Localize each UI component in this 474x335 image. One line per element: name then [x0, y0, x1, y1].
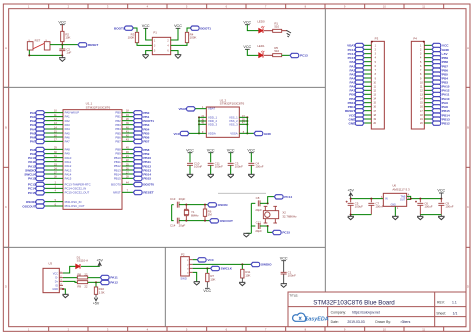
wire +5V to IN	[349, 193, 351, 199]
wire C13 to OSCIN	[179, 203, 208, 206]
ground C10	[187, 173, 194, 176]
wire C4 to ground	[250, 165, 253, 174]
header P4 pin 1 net VCC	[424, 44, 432, 47]
svg-text:Company:: Company:	[331, 311, 347, 315]
ground 32k	[250, 226, 253, 233]
header P4 pin 10 net PB3	[424, 81, 432, 84]
U1.1 pin 3 PC14-OSC32_IN	[45, 187, 63, 190]
svg-text:PB13: PB13	[114, 168, 121, 172]
net flag PB9	[133, 152, 142, 156]
svg-text:OSCOUT: OSCOUT	[220, 219, 233, 223]
svg-text:PA5: PA5	[30, 131, 36, 135]
svg-text:GND: GND	[264, 132, 272, 136]
svg-text:VDD_3: VDD_3	[208, 122, 217, 126]
svg-text:1uF: 1uF	[66, 50, 71, 54]
svg-text:100nF: 100nF	[215, 165, 223, 169]
net flag PB1	[133, 115, 142, 119]
svg-text:VCC: VCC	[227, 148, 235, 152]
net flag GND U1.2	[254, 131, 263, 135]
header P4 pin 6 net PB7	[424, 64, 432, 67]
svg-text:PB13: PB13	[143, 168, 151, 172]
header P4 pin 18 net PB14	[424, 114, 432, 117]
net flag OSCIN	[36, 200, 45, 204]
header P3 pin 17 net RESET	[364, 109, 371, 112]
net flag PA12 usb	[100, 280, 109, 284]
net flag BOOT0	[133, 182, 142, 186]
svg-text:PB10: PB10	[114, 156, 121, 160]
svg-text:VCC: VCC	[173, 132, 180, 136]
U1.1 pin 20 PB2	[122, 119, 133, 122]
svg-text:100nF: 100nF	[255, 165, 263, 169]
svg-text:GND: GND	[442, 48, 450, 52]
U1.1 pin 21 PB10	[122, 156, 133, 159]
net flag PA9	[36, 152, 45, 156]
wire C10 to ground	[189, 165, 192, 174]
svg-text:OSCOUT: OSCOUT	[22, 204, 35, 208]
svg-text:VCC: VCC	[203, 289, 211, 293]
U1.2 VDD pins wires	[199, 116, 206, 119]
svg-text:VBAT: VBAT	[208, 107, 215, 111]
ground P2	[194, 280, 200, 283]
net flag PB5	[133, 131, 142, 135]
net flag PB8	[133, 147, 142, 151]
net flag PA2	[36, 119, 45, 123]
svg-text:20pF: 20pF	[179, 223, 186, 227]
wire switch to RESET node	[50, 43, 78, 46]
svg-text:PA4: PA4	[350, 76, 356, 80]
svg-text:PB14: PB14	[114, 172, 121, 176]
ground C4	[248, 173, 255, 176]
svg-text:10K: 10K	[245, 273, 250, 277]
ground reset	[61, 55, 63, 57]
svg-text:RESET: RESET	[345, 109, 355, 113]
capacitor C5	[349, 199, 352, 203]
wire C12 to PC15 node	[260, 225, 268, 228]
svg-text:PA3: PA3	[65, 123, 71, 127]
net flag PC13 led	[290, 53, 299, 57]
svg-text:PA9: PA9	[30, 152, 36, 156]
U1.1 pin 34 PA13	[45, 169, 63, 172]
resistor R10	[95, 282, 98, 287]
svg-text:OSCIN: OSCIN	[218, 203, 229, 207]
resistor R6	[204, 205, 207, 209]
svg-text:VCC: VCC	[349, 113, 356, 117]
U1.1 pin 14 PA4	[45, 128, 63, 131]
net flag RESET	[133, 190, 142, 194]
svg-text:PB10: PB10	[348, 101, 356, 105]
header P3 pin 16 net PB11	[364, 105, 371, 108]
svg-text:PB8: PB8	[442, 60, 448, 64]
wire output bottom rail	[420, 213, 441, 216]
svg-text:PA0: PA0	[350, 60, 356, 64]
U1.1 pin 42 PB6	[122, 136, 133, 139]
svg-text:PB10: PB10	[143, 156, 151, 160]
svg-text:VCC: VCC	[207, 148, 215, 152]
ground C1	[281, 282, 287, 285]
wire VSSA pin 8 to GND	[239, 132, 254, 135]
svg-text:PC14-OSC32_IN: PC14-OSC32_IN	[65, 187, 86, 191]
svg-text:PD0-OSC_IN: PD0-OSC_IN	[65, 200, 82, 204]
wire switch bottom	[29, 50, 62, 55]
U1.1 pin 28 PB15	[122, 177, 133, 180]
svg-text:BOOT1: BOOT1	[200, 26, 211, 30]
capacitor C4	[248, 162, 254, 165]
svg-text:VCC: VCC	[186, 148, 194, 152]
svg-text:C14: C14	[170, 223, 176, 227]
net flag PA5	[36, 131, 45, 135]
svg-text:100K: 100K	[128, 36, 135, 40]
svg-text:10K: 10K	[65, 36, 70, 40]
svg-text:PB4: PB4	[143, 127, 149, 131]
wire D1 to +5V	[81, 265, 100, 268]
svg-text:100uF: 100uF	[424, 205, 432, 209]
ground C6	[417, 215, 423, 218]
svg-text:VSSA: VSSA	[230, 132, 238, 136]
svg-text:PA9: PA9	[65, 152, 71, 156]
svg-text:PB11: PB11	[348, 105, 356, 109]
svg-text:100uF: 100uF	[355, 205, 363, 209]
svg-text:PA2: PA2	[65, 119, 71, 123]
svg-text:32.768KHz: 32.768KHz	[282, 214, 297, 218]
svg-text:VCC: VCC	[174, 24, 182, 28]
partition line horizontal lower	[3, 246, 325, 249]
net flag PB10	[133, 156, 142, 160]
svg-text:PD1-OSC_OUT: PD1-OSC_OUT	[65, 204, 85, 208]
U1.1 pin 6 PD1-OSC_OUT	[45, 205, 63, 208]
U1.1 pin 41 PB5	[122, 132, 133, 135]
wire R9 to PA12	[88, 281, 101, 284]
wire U3 GND to ground	[63, 289, 65, 294]
svg-text:PB6: PB6	[115, 135, 121, 139]
resistor R9	[77, 281, 87, 284]
header P3 pin 10 net PA5	[364, 81, 371, 84]
svg-text:RST: RST	[35, 38, 41, 42]
svg-text:22: 22	[84, 272, 88, 276]
wire U3 VCC to D1	[63, 266, 76, 273]
wire C11 to ground	[209, 165, 212, 174]
header P2 SWD	[181, 257, 190, 276]
wire regulator GND pin	[394, 207, 397, 217]
svg-text:PB3: PB3	[115, 123, 121, 127]
title block	[288, 292, 466, 327]
svg-text:PC15: PC15	[348, 56, 356, 60]
net flag OSCIN	[208, 203, 217, 207]
svg-text:GND: GND	[52, 288, 58, 291]
wire VCC to C10	[189, 153, 192, 163]
U1.1 pin 27 PB14	[122, 173, 133, 176]
LED LED1	[259, 53, 263, 58]
svg-text:GND: GND	[348, 121, 356, 125]
net flag PC14	[274, 195, 283, 199]
svg-text:PB3: PB3	[442, 81, 448, 85]
svg-text:20pF: 20pF	[255, 229, 262, 233]
svg-text:PB9: PB9	[143, 152, 149, 156]
svg-text:R8: R8	[77, 272, 81, 276]
svg-text:P2: P2	[181, 253, 185, 257]
net flag SWDIO	[251, 262, 260, 266]
svg-text:PB1: PB1	[115, 115, 121, 119]
svg-text:PA0-WKUP: PA0-WKUP	[65, 111, 80, 115]
svg-text:510: 510	[274, 49, 279, 53]
U1.1 pin 32 PA11	[45, 160, 63, 163]
svg-text:8MHz: 8MHz	[191, 213, 199, 217]
svg-text:PB1: PB1	[349, 97, 355, 101]
svg-text:PC15-OSC32_OUT: PC15-OSC32_OUT	[65, 191, 90, 195]
svg-text:PB7: PB7	[115, 139, 121, 143]
wire VCC to P1 pin1	[146, 28, 153, 40]
svg-text:PA15: PA15	[442, 85, 450, 89]
wire node to PC14	[268, 197, 275, 204]
wire VCC to C3	[229, 153, 232, 163]
capacitor C6	[419, 199, 422, 203]
svg-text:PA2: PA2	[30, 119, 36, 123]
svg-text:PB12: PB12	[442, 121, 450, 125]
svg-text:22: 22	[84, 285, 88, 289]
resistor R5	[273, 54, 282, 57]
capacitor C12	[257, 223, 260, 229]
header P3 pin 8 net PA3	[364, 73, 371, 76]
wire R11 to ground	[241, 278, 243, 282]
header P3 pin 13 net PB0	[364, 93, 371, 96]
U1.1 pin 40 PB4	[122, 128, 133, 131]
capacitor C9	[440, 199, 443, 203]
ground regulator	[392, 215, 399, 218]
svg-text:RESET: RESET	[88, 43, 98, 47]
wire regulator output	[407, 196, 411, 199]
svg-text:PB5: PB5	[143, 131, 149, 135]
svg-text:PB11: PB11	[143, 160, 151, 164]
net flag OSCOUT	[210, 219, 219, 223]
svg-text:r3bers: r3bers	[401, 320, 411, 324]
svg-text:510: 510	[274, 24, 279, 28]
svg-text:PA1: PA1	[350, 64, 356, 68]
U1.1 pin 11 PA1	[45, 115, 63, 118]
wire C14 to OSCOUT	[179, 219, 210, 222]
svg-text:VBAT: VBAT	[347, 44, 355, 48]
U1.1 pin 31 PA10	[45, 156, 63, 159]
svg-text:PA10: PA10	[28, 156, 36, 160]
svg-text:PA7: PA7	[65, 139, 71, 143]
net flag PA8	[36, 147, 45, 151]
resistor R4	[185, 32, 188, 42]
net flag VBAT	[187, 107, 196, 111]
wire R5 to PC13	[282, 54, 290, 57]
svg-text:PB1: PB1	[143, 115, 149, 119]
svg-text:PB12: PB12	[143, 164, 151, 168]
header P3 pin 12 net PA7	[364, 89, 371, 92]
net flag PA1	[36, 115, 45, 119]
header P3 pin 20 net GND	[364, 122, 371, 125]
svg-text:PA14: PA14	[65, 172, 72, 176]
wire LED0 to R1	[264, 29, 273, 32]
svg-text:VCC: VCC	[53, 272, 58, 275]
svg-text:PB6: PB6	[442, 68, 448, 72]
net flag RESET	[78, 43, 87, 47]
U1.1 pin 43 PB7	[122, 140, 133, 143]
net flag PB6	[133, 135, 142, 139]
svg-text:PA11: PA11	[110, 276, 118, 280]
svg-text:Drawn By:: Drawn By:	[375, 320, 391, 324]
svg-text:PC14: PC14	[28, 187, 36, 191]
header P3 pin 7 net PA2	[364, 69, 371, 72]
net flag PB4	[133, 127, 142, 131]
svg-text:PA15: PA15	[65, 176, 72, 180]
U1.1 pin 18 PB0	[122, 111, 133, 114]
header P4 pin 16 net PA8	[424, 105, 432, 108]
svg-text:RESET: RESET	[143, 191, 153, 195]
header P4 pin 3 net +5V	[424, 52, 432, 55]
U1.1 pin 15 PA5	[45, 132, 63, 135]
svg-text:OSCIN: OSCIN	[26, 200, 37, 204]
svg-text:PA6: PA6	[350, 85, 356, 89]
net flag PB3	[133, 123, 142, 127]
header P1	[152, 37, 170, 54]
net flag PA11 usb	[100, 275, 109, 279]
U1.1 pin 33 PA12	[45, 165, 63, 168]
U1.1 pin 22 PB11	[122, 160, 133, 163]
svg-text:LED1: LED1	[257, 44, 265, 48]
svg-text:1/1: 1/1	[453, 312, 458, 316]
svg-text:D-: D-	[55, 277, 58, 280]
svg-text:PA3: PA3	[350, 72, 356, 76]
net flag PA7	[36, 139, 45, 143]
capacitor C10	[187, 162, 193, 165]
U1.1 pin 37 PA14	[45, 173, 63, 176]
header P4 pin 13 net PA11	[424, 93, 432, 96]
svg-text:PA1: PA1	[30, 115, 36, 119]
wire R4 to P1 pin4	[171, 43, 187, 46]
svg-text:PB9: PB9	[115, 152, 121, 156]
svg-text:PA6: PA6	[30, 135, 36, 139]
crystal X2 32.768KHz	[263, 211, 278, 219]
wire 32k left rail	[251, 202, 255, 205]
header P4 pin 7 net PB6	[424, 69, 432, 72]
wire P2 pin1 to VCC	[193, 258, 198, 261]
ground C11	[208, 173, 214, 176]
svg-text:PB6: PB6	[143, 135, 149, 139]
wire P2 pin3 to SWCLK	[193, 267, 211, 270]
svg-text:PB11: PB11	[114, 160, 121, 164]
net flag PA10	[36, 156, 45, 160]
svg-text:1.5K: 1.5K	[99, 290, 105, 294]
net flag PC14	[36, 186, 45, 190]
svg-text:PA8: PA8	[30, 148, 36, 152]
net flag PA4	[36, 127, 45, 131]
svg-text:EasyEDA: EasyEDA	[305, 317, 329, 323]
svg-text:VCC: VCC	[243, 45, 251, 49]
svg-text:PC13: PC13	[348, 48, 356, 52]
svg-text:PA9: PA9	[442, 101, 448, 105]
wire node to PC15	[268, 226, 273, 232]
svg-text:PB0: PB0	[143, 111, 149, 115]
wire input bottom rail	[351, 213, 372, 216]
U1.1 pin 12 PA2	[45, 119, 63, 122]
svg-text:PB5: PB5	[115, 131, 121, 135]
svg-text:PA11: PA11	[65, 160, 72, 164]
svg-text:SWDIO: SWDIO	[25, 168, 36, 172]
wire VCC to P1 pin2	[171, 28, 178, 40]
svg-text:Date:: Date:	[331, 320, 339, 324]
net flag SWDIO	[36, 168, 45, 172]
EasyEDA logo	[293, 313, 329, 323]
svg-text:VSS_3: VSS_3	[229, 122, 238, 126]
header P4 pin 15 net PA9	[424, 101, 432, 104]
svg-text:PB7: PB7	[442, 64, 448, 68]
wire U3 D+ to R9	[63, 281, 77, 282]
capacitor C11	[208, 162, 214, 165]
svg-text:PB4: PB4	[442, 76, 448, 80]
header P3 pin 11 net PA6	[364, 85, 371, 88]
svg-text:PB2: PB2	[115, 119, 121, 123]
svg-text:PC13: PC13	[300, 54, 308, 58]
net flag PA12	[36, 164, 45, 168]
svg-text:R9: R9	[77, 285, 81, 289]
svg-text:TITLE:: TITLE:	[289, 293, 298, 297]
ground regulator input	[348, 215, 354, 218]
U1.1 pin 17 PA7	[45, 140, 63, 143]
ground C3	[228, 173, 234, 176]
svg-text:ID: ID	[55, 284, 58, 287]
net flag OSCOUT	[36, 204, 45, 208]
svg-text:PB13: PB13	[442, 117, 450, 121]
svg-text:BOOT0: BOOT0	[111, 182, 121, 186]
svg-text:PA5: PA5	[350, 81, 356, 85]
wire BOOT0 to R3	[133, 28, 137, 32]
svg-text:PC13-TAMPER-RTC: PC13-TAMPER-RTC	[65, 182, 91, 186]
svg-text:PA8: PA8	[442, 105, 448, 109]
op-amp U1.2 STM32F103C8T6 power symbol	[206, 107, 239, 137]
svg-text:PA12: PA12	[65, 164, 72, 168]
svg-text:VCC: VCC	[142, 24, 150, 28]
svg-text:PA12: PA12	[442, 89, 450, 93]
svg-text:20pF: 20pF	[255, 208, 262, 212]
header P4 pin 5 net PB8	[424, 60, 432, 63]
resistor R8	[77, 276, 87, 279]
svg-text:SS110-A: SS110-A	[77, 259, 88, 263]
U1.1 pin 44 BOOT0	[122, 183, 133, 186]
svg-text:PA4: PA4	[65, 127, 71, 131]
svg-text:PA10: PA10	[65, 156, 72, 160]
U1.1 pin 26 PB13	[122, 169, 133, 172]
svg-text:PA13: PA13	[65, 168, 72, 172]
svg-text:PA4: PA4	[30, 127, 36, 131]
svg-text:+5V: +5V	[97, 259, 104, 263]
svg-text:100nF: 100nF	[375, 205, 383, 209]
svg-text:100K: 100K	[190, 36, 197, 40]
wire C1 to ground	[282, 274, 285, 283]
U1.1 pin 29 PA8	[45, 148, 63, 151]
ground U3	[62, 293, 68, 296]
header P4 pin 9 net PB4	[424, 77, 432, 80]
LED LED0	[259, 28, 263, 33]
svg-text:PB5: PB5	[442, 72, 448, 76]
header P3 pin 2 net PC13	[364, 48, 371, 51]
wire VCC to R2	[61, 25, 64, 32]
header P4 pin 20 net PB12	[424, 122, 432, 125]
svg-text:BOOT0: BOOT0	[143, 183, 154, 187]
switch SW1 RST	[27, 42, 33, 50]
svg-text:STM32F103C8T6: STM32F103C8T6	[86, 105, 111, 109]
header P3 pin 14 net PB1	[364, 97, 371, 100]
ground boot right	[175, 53, 182, 56]
svg-text:SWDIO: SWDIO	[261, 263, 272, 267]
svg-text:VBAT: VBAT	[178, 107, 186, 111]
svg-text:PA15: PA15	[28, 177, 36, 181]
svg-text:PB0: PB0	[115, 111, 121, 115]
U1.1 pin 30 PA9	[45, 152, 63, 155]
header P4 pin 14 net PA10	[424, 97, 432, 100]
svg-text:NRST: NRST	[113, 191, 121, 195]
